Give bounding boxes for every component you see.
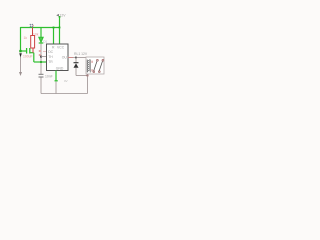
node A junction xyxy=(19,50,21,52)
resistor R1 body xyxy=(31,36,35,49)
wire IC top pin R xyxy=(53,28,55,45)
node marker X glyph xyxy=(30,24,33,27)
svg-text:GND: GND xyxy=(56,66,64,70)
diode D2 body xyxy=(74,63,79,68)
diode D1 cathode bar xyxy=(39,42,44,44)
svg-text:100uF: 100uF xyxy=(23,55,33,59)
relay contact 2 xyxy=(99,61,103,72)
svg-text:1k: 1k xyxy=(24,36,28,40)
node junction R pin xyxy=(53,27,55,29)
svg-text:OUT: OUT xyxy=(62,55,69,59)
wire C2 down xyxy=(40,78,42,94)
wire node to IC pin3 xyxy=(34,61,47,63)
ground shaft xyxy=(20,57,22,72)
wire power down xyxy=(59,17,61,28)
diode D1 body xyxy=(39,37,43,42)
capacitor C1 plate right xyxy=(29,48,31,54)
wire diode to IC pin2 xyxy=(41,56,47,58)
wire top rail xyxy=(21,27,61,29)
diode D1 wire top xyxy=(40,28,42,38)
capacitor C1 plate left xyxy=(26,48,28,54)
capacitor C2 plate bottom xyxy=(39,76,44,78)
op-amp U1 555 body xyxy=(47,44,69,71)
capacitor C2 plate top xyxy=(39,73,44,75)
svg-text:0V: 0V xyxy=(64,79,68,83)
diode D2 lead top xyxy=(75,58,77,64)
junction coil xyxy=(87,75,89,77)
svg-text:VCC: VCC xyxy=(57,46,65,50)
wire coil bottom down xyxy=(87,74,89,94)
wire bottom rail xyxy=(41,93,88,95)
ground arrow head upper xyxy=(19,53,22,57)
svg-text:TH: TH xyxy=(48,55,53,59)
junction diode to pin xyxy=(40,56,42,58)
IC pin1 stub unconnected xyxy=(43,51,47,53)
wire cap C1 left stub xyxy=(21,50,27,52)
svg-text:D1: D1 xyxy=(43,39,47,43)
diode label marks xyxy=(39,50,41,52)
diode D2 lead bottom xyxy=(75,68,77,76)
ground arrow head lower xyxy=(19,72,22,76)
svg-text:12V: 12V xyxy=(60,14,67,18)
relay contact 1 xyxy=(94,61,98,72)
wire node down xyxy=(33,53,35,62)
diode D1 lead down xyxy=(40,44,42,75)
svg-text:TR: TR xyxy=(48,60,53,64)
wire GND gray down xyxy=(55,82,57,94)
node junction VCC pin xyxy=(59,27,61,29)
resistor R1 lead bottom xyxy=(32,48,34,53)
wire IC top pin VCC xyxy=(59,28,61,45)
relay coil xyxy=(87,60,90,73)
svg-text:DC: DC xyxy=(48,50,53,54)
wire cap C1 right to node xyxy=(30,52,34,54)
wire IC GND down xyxy=(55,71,57,81)
coil pin marks xyxy=(91,61,93,63)
relay RL1 box xyxy=(86,57,104,74)
diode D2 cathode bar xyxy=(74,62,79,64)
svg-text:RL1 12V: RL1 12V xyxy=(74,52,88,56)
junction OUT diode xyxy=(75,57,77,59)
ground tick xyxy=(55,80,58,82)
wire diode to coil wire xyxy=(76,75,88,77)
wire OUT to relay xyxy=(73,57,86,59)
junction diode lead crossing xyxy=(40,61,42,63)
IC OUT pin stub xyxy=(68,57,73,59)
power terminal arrow xyxy=(56,14,59,17)
resistor R1 lead top xyxy=(32,28,34,36)
wire left vertical xyxy=(20,27,22,52)
svg-text:10nF: 10nF xyxy=(45,75,53,79)
